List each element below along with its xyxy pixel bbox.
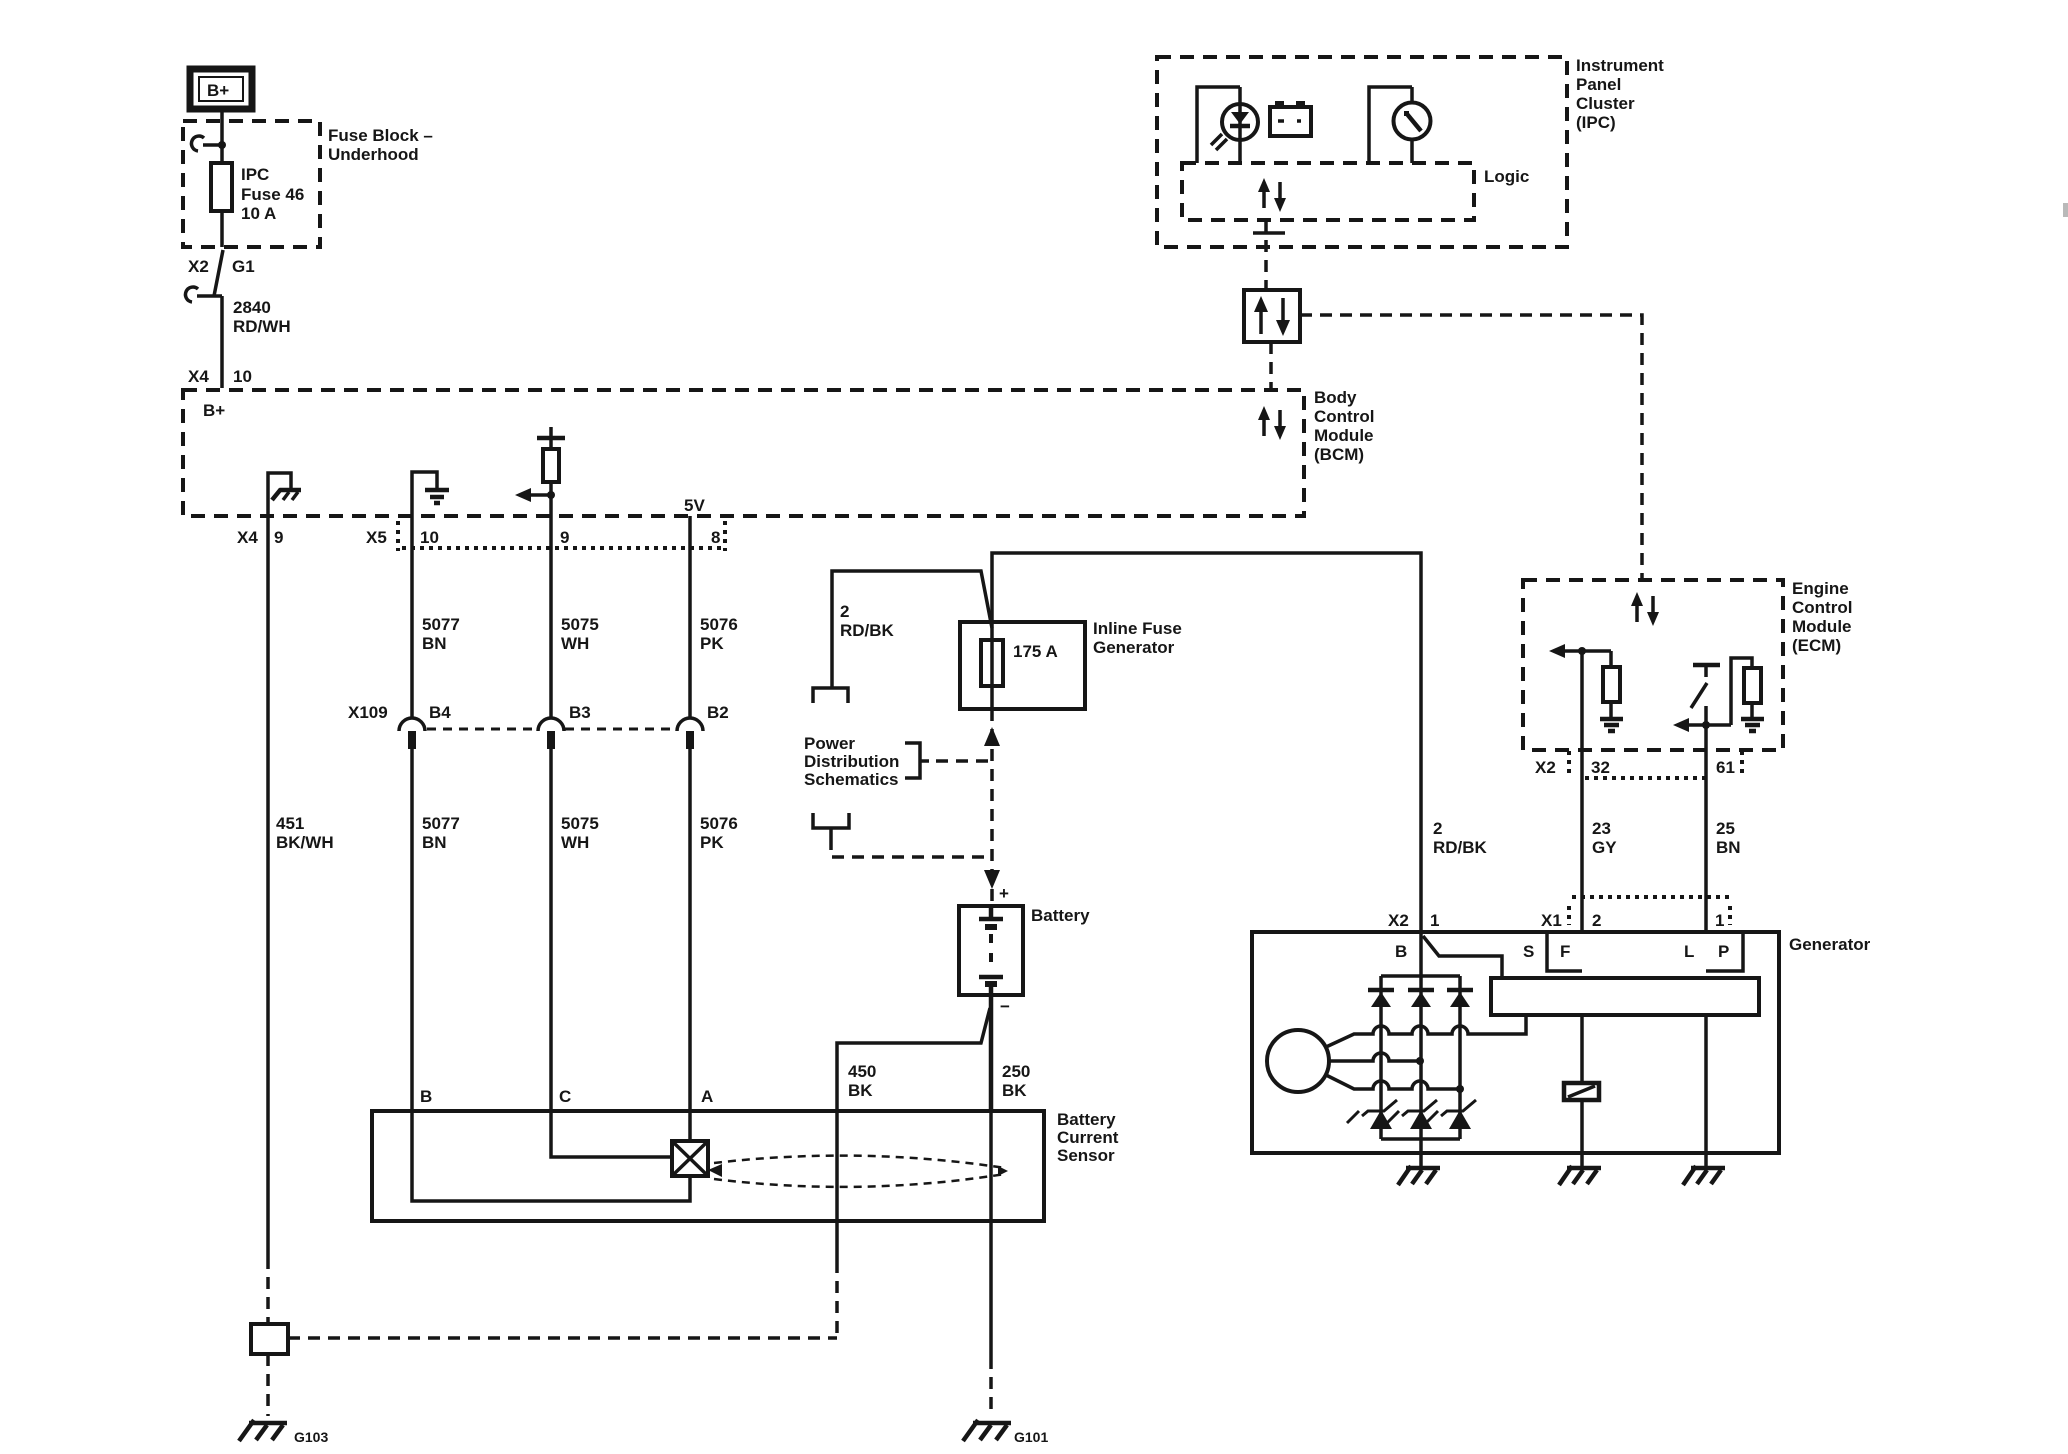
serial data wire to ECM [1300, 315, 1642, 580]
inline connector on 451 circuit [251, 1324, 288, 1354]
connector tap at fuse block input [191, 136, 226, 151]
svg-text:10: 10 [233, 367, 252, 386]
svg-text:2: 2 [1433, 819, 1442, 838]
svg-text:X109: X109 [348, 703, 388, 722]
svg-text:PK: PK [700, 634, 724, 653]
generator ground F [1559, 1166, 1601, 1185]
sensor hall element [672, 1141, 708, 1176]
off-page bracket lower to power distribution [813, 813, 988, 857]
svg-text:RD/WH: RD/WH [233, 317, 291, 336]
svg-text:Battery: Battery [1057, 1110, 1116, 1129]
sensor twisted pair [708, 1156, 1008, 1187]
BCM serial data arrows [1258, 406, 1286, 440]
generator field relay element [1564, 1083, 1599, 1100]
sensor internal wire from C [551, 1111, 672, 1157]
connector X109 pin B3 [538, 703, 591, 749]
svg-text:Sensor: Sensor [1057, 1146, 1115, 1165]
generator terminal dividers [1547, 933, 1743, 971]
arrow down to battery [984, 870, 1000, 889]
stator winding phase 3 [1326, 1075, 1464, 1093]
rectifier bridge frame [1381, 976, 1460, 1139]
svg-text:1: 1 [1715, 911, 1724, 930]
svg-text:250: 250 [1002, 1062, 1030, 1081]
svg-text:Module: Module [1314, 426, 1374, 445]
logic serial arrows [1258, 178, 1286, 212]
generator ground L [1683, 1166, 1725, 1185]
svg-text:G103: G103 [294, 1429, 328, 1445]
svg-text:5075: 5075 [561, 615, 599, 634]
svg-text:PK: PK [700, 833, 724, 852]
svg-text:B3: B3 [569, 703, 591, 722]
svg-text:B: B [420, 1087, 432, 1106]
svg-text:X4: X4 [237, 528, 258, 547]
svg-text:5077: 5077 [422, 615, 460, 634]
wire 451 BK/WH [268, 516, 334, 1257]
svg-text:Battery: Battery [1031, 906, 1090, 925]
svg-text:5V: 5V [684, 496, 705, 515]
svg-text:Logic: Logic [1484, 167, 1529, 186]
rectifier avalanche diode bottom left [1347, 1100, 1397, 1129]
rectifier diode top right [1447, 990, 1473, 1007]
svg-text:2840: 2840 [233, 298, 271, 317]
connector X2 row pin 1 at generator [1388, 911, 1439, 930]
stator winding phase 2 [1329, 1053, 1424, 1065]
svg-text:G101: G101 [1014, 1429, 1048, 1445]
BCM internal ground for pin X5-10 [412, 472, 449, 516]
serial data wire IPC to data link [1253, 220, 1285, 290]
ECM lamp monitor arrow on pin 61 [1673, 718, 1731, 732]
ground G103 [239, 1420, 328, 1445]
svg-text:Fuse 46: Fuse 46 [241, 185, 304, 204]
svg-text:B4: B4 [429, 703, 451, 722]
inline fuse generator box [960, 619, 1182, 709]
arrow up on battery feed [984, 727, 1000, 746]
svg-text:X4: X4 [188, 367, 209, 386]
wire 23 GY [1582, 750, 1617, 932]
wire battery negative down [989, 995, 994, 1111]
svg-text:BN: BN [1716, 838, 1741, 857]
svg-text:B2: B2 [707, 703, 729, 722]
wire B through rectifier [1419, 932, 1423, 1139]
svg-text:GY: GY [1592, 838, 1617, 857]
ECM serial arrows [1631, 592, 1659, 626]
svg-text:25: 25 [1716, 819, 1735, 838]
svg-text:Generator: Generator [1789, 935, 1871, 954]
wire F regulator to relay [1580, 1015, 1584, 1083]
wire 5077 BN upper [412, 516, 460, 718]
svg-text:Schematics: Schematics [804, 770, 899, 789]
ECM L-terminal switch [1691, 665, 1720, 750]
svg-text:Power: Power [804, 734, 855, 753]
svg-text:Module: Module [1792, 617, 1852, 636]
ECM generator turn-on signal arrow [1549, 644, 1611, 658]
svg-text:RD/BK: RD/BK [840, 621, 895, 640]
sensor wire from A [688, 1111, 692, 1141]
wire L inside generator [1704, 1015, 1708, 1166]
svg-text:IPC: IPC [241, 165, 269, 184]
svg-text:(ECM): (ECM) [1792, 636, 1841, 655]
battery [959, 906, 1090, 995]
svg-text:9: 9 [274, 528, 283, 547]
off-page connector for 2 RD/BK [813, 688, 848, 703]
svg-text:P: P [1718, 942, 1729, 961]
svg-text:5075: 5075 [561, 814, 599, 833]
wire 5076 PK upper [690, 516, 738, 718]
svg-text:WH: WH [561, 634, 589, 653]
connector X1 row pins 2 and 1 [1541, 897, 1730, 930]
ground G101 [963, 1420, 1048, 1445]
svg-text:B+: B+ [207, 81, 229, 100]
engine control module ECM box [1523, 579, 1852, 750]
connector X2 row pins 32 and 61 [1535, 751, 1742, 778]
IPC logic box [1182, 163, 1529, 220]
generator ground B [1398, 1166, 1440, 1185]
connector X109 pin B4 [348, 703, 451, 749]
svg-text:Body: Body [1314, 388, 1357, 407]
svg-text:A: A [701, 1087, 713, 1106]
svg-text:Fuse Block –: Fuse Block – [328, 126, 433, 145]
svg-text:X2: X2 [188, 257, 209, 276]
svg-text:X2: X2 [1388, 911, 1409, 930]
fuse 175 A [981, 640, 1058, 709]
wire 5076 PK lower [690, 749, 738, 1111]
wire 2 RD/BK to generator [1433, 819, 1488, 857]
svg-text:8: 8 [711, 528, 720, 547]
generator stator [1267, 1030, 1329, 1092]
wire B to regulator [1423, 936, 1502, 978]
svg-text:Control: Control [1314, 407, 1374, 426]
wire B to case ground [1419, 1139, 1423, 1166]
svg-text:(IPC): (IPC) [1576, 113, 1616, 132]
wire relay to generator case [1580, 1100, 1584, 1166]
battery positive terminal B+ [190, 69, 252, 109]
ECM pull-up resistor on pin 61 [1731, 658, 1761, 725]
svg-text:175 A: 175 A [1013, 642, 1058, 661]
wire 5075 WH upper [551, 516, 599, 718]
BCM internal signal arrow on pin X5-9 [515, 488, 555, 502]
svg-text:BN: BN [422, 634, 447, 653]
rectifier avalanche diode bottom right [1426, 1100, 1476, 1129]
svg-text:Panel: Panel [1576, 75, 1621, 94]
ECM pull-down resistor on pin 32 [1603, 651, 1620, 719]
power distribution schematics label [804, 734, 899, 789]
svg-text:X1: X1 [1541, 911, 1562, 930]
svg-text:451: 451 [276, 814, 304, 833]
wire 451 dashed to ground connector [266, 1257, 270, 1324]
generator box [1252, 932, 1871, 1153]
fuse IPC Fuse 46 10 A [211, 163, 304, 223]
svg-text:2: 2 [840, 602, 849, 621]
wire splice to 450 BK [837, 1008, 990, 1111]
serial data link box [1244, 290, 1300, 342]
instrument panel cluster IPC box [1157, 56, 1664, 247]
svg-text:10 A: 10 A [241, 204, 276, 223]
svg-text:BK: BK [1002, 1081, 1027, 1100]
svg-text:Engine: Engine [1792, 579, 1849, 598]
IPC voltmeter gauge [1369, 87, 1431, 163]
svg-text:Underhood: Underhood [328, 145, 419, 164]
stator winding phase 1 [1326, 1015, 1526, 1047]
svg-text:S: S [1523, 942, 1534, 961]
connector X2 pin G1 [185, 250, 254, 302]
svg-text:G1: G1 [232, 257, 255, 276]
sensor internal wire from B [412, 1111, 690, 1201]
wire B+ to fuse [220, 109, 224, 163]
svg-text:C: C [559, 1087, 571, 1106]
IPC charge indicator LED [1197, 87, 1258, 163]
wire 250 BK [991, 1062, 1030, 1416]
svg-text:X2: X2 [1535, 758, 1556, 777]
rectifier diode top left [1368, 990, 1394, 1007]
svg-text:Cluster: Cluster [1576, 94, 1635, 113]
svg-text:5076: 5076 [700, 615, 738, 634]
ECM wire pin 32 [1580, 651, 1584, 750]
svg-text:Current: Current [1057, 1128, 1119, 1147]
svg-text:(BCM): (BCM) [1314, 445, 1364, 464]
BCM internal ground for pin X4-9 [268, 473, 301, 516]
svg-text:61: 61 [1716, 758, 1735, 777]
battery current sensor box [372, 1110, 1119, 1221]
label fuse block underhood [328, 126, 433, 164]
svg-text:Inline Fuse: Inline Fuse [1093, 619, 1182, 638]
svg-text:BK: BK [848, 1081, 873, 1100]
svg-text:Control: Control [1792, 598, 1852, 617]
svg-text:Instrument: Instrument [1576, 56, 1664, 75]
wire 5075 WH lower [551, 749, 599, 1111]
serial data wire to BCM [1269, 342, 1273, 390]
svg-text:−: − [1000, 997, 1010, 1016]
rectifier avalanche diode bottom middle [1387, 1100, 1437, 1129]
svg-text:10: 10 [420, 528, 439, 547]
svg-text:RD/BK: RD/BK [1433, 838, 1488, 857]
svg-text:32: 32 [1591, 758, 1610, 777]
svg-text:2: 2 [1592, 911, 1601, 930]
wire 25 BN [1706, 750, 1741, 932]
IPC battery telltale icon [1270, 101, 1311, 136]
wire 5077 BN lower [412, 749, 460, 1111]
connector row X4-9 X5 pins [237, 528, 720, 547]
svg-text:9: 9 [560, 528, 569, 547]
svg-text:L: L [1684, 942, 1694, 961]
wire 2840 RD/WH [222, 296, 291, 388]
connector X4 pin 10 [188, 367, 252, 386]
svg-text:450: 450 [848, 1062, 876, 1081]
svg-text:B: B [1395, 942, 1407, 961]
dashed link connector to 450 BK [288, 1336, 837, 1340]
svg-text:+: + [999, 884, 1009, 903]
rectifier diode top middle [1408, 990, 1434, 1007]
wire to ground G103 [266, 1354, 270, 1416]
ECM ground under resistor [1600, 719, 1623, 731]
svg-text:F: F [1560, 942, 1570, 961]
BCM internal voltage supply and resistor on pin X5-9 [537, 427, 565, 516]
svg-text:WH: WH [561, 833, 589, 852]
dashed battery feed wire [990, 709, 994, 906]
wire 450 BK [837, 1062, 876, 1338]
svg-text:5077: 5077 [422, 814, 460, 833]
svg-text:23: 23 [1592, 819, 1611, 838]
svg-text:B+: B+ [203, 401, 225, 420]
body control module BCM box [183, 390, 1304, 516]
wire fuse to X2 pin G1 [220, 211, 224, 247]
svg-text:Generator: Generator [1093, 638, 1175, 657]
svg-text:Distribution: Distribution [804, 752, 899, 771]
connector X109 link dashes [427, 728, 675, 731]
connector X109 pin B2 [677, 703, 729, 749]
generator voltage regulator [1491, 978, 1759, 1015]
connector X5 strip [398, 521, 725, 551]
svg-text:X5: X5 [366, 528, 387, 547]
svg-text:5076: 5076 [700, 814, 738, 833]
off-page bracket upper to power distribution [905, 743, 988, 778]
svg-text:1: 1 [1430, 911, 1439, 930]
svg-text:BN: BN [422, 833, 447, 852]
wire 2 RD/BK branch upper [832, 571, 992, 687]
label BCM [1314, 388, 1374, 464]
fuse block underhood box [183, 121, 320, 247]
ECM ground under pin 61 resistor [1741, 719, 1764, 731]
svg-text:BK/WH: BK/WH [276, 833, 334, 852]
wire generator feed top run [992, 553, 1421, 932]
